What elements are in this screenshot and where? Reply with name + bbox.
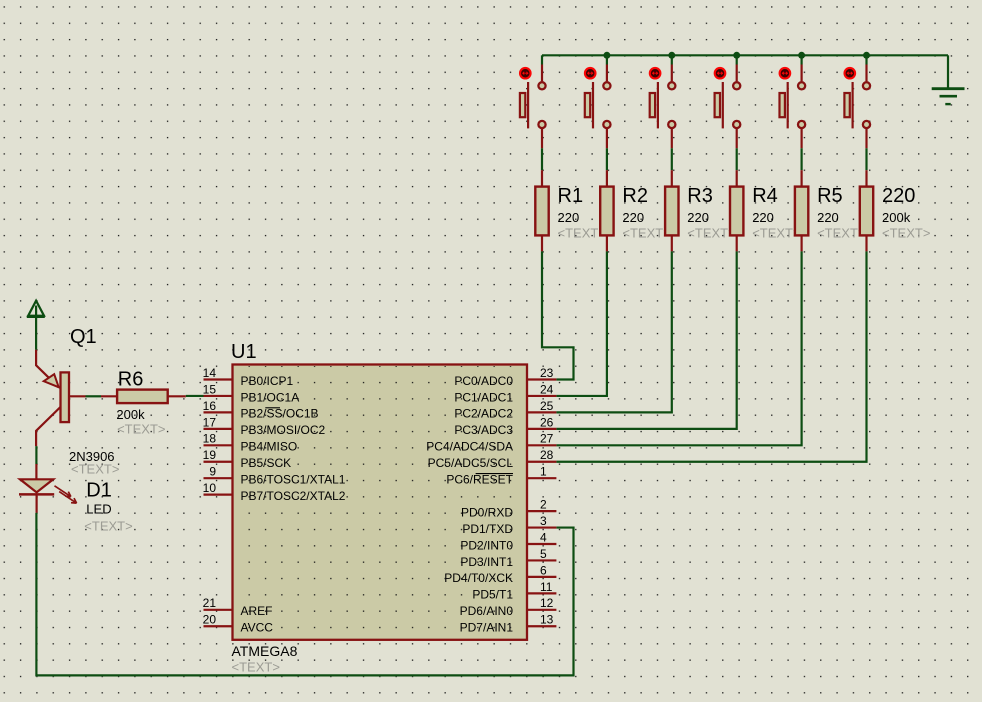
- pin 19 (PB5/SCK) stub: [204, 461, 233, 463]
- wire: R4 to MCU pin: [556, 251, 736, 428]
- overline SS (PB2): [265, 407, 280, 409]
- wire: rail to button 3 top pin: [671, 55, 673, 64]
- pin 14 (PB0/ICP1) stub: [204, 378, 233, 380]
- svg-text:15: 15: [203, 382, 217, 396]
- svg-text:D1: D1: [86, 479, 112, 501]
- transistor Q1 2N3906: [36, 350, 85, 446]
- svg-text:6: 6: [540, 563, 547, 577]
- svg-text:Q1: Q1: [70, 326, 97, 348]
- pin 20 (AVCC) stub: [204, 625, 233, 627]
- svg-text:14: 14: [203, 366, 217, 380]
- wire: rail to button 5 top pin: [800, 55, 802, 64]
- svg-text:<TEXT>: <TEXT>: [117, 422, 165, 437]
- svg-text:<TEXT>: <TEXT>: [752, 226, 800, 241]
- svg-text:R3: R3: [687, 185, 713, 207]
- wire: Q1 base to R6: [86, 395, 102, 397]
- svg-text:<TEXT>: <TEXT>: [817, 226, 865, 241]
- pin 18 (PB4/MISO) stub: [204, 444, 233, 446]
- svg-text:R2: R2: [622, 185, 648, 207]
- wire: button 1 to resistor top: [541, 148, 543, 170]
- resistor R1: [535, 170, 548, 251]
- svg-text:R5: R5: [817, 185, 843, 207]
- power terminal (up arrow): [27, 301, 45, 350]
- svg-text:9: 9: [209, 465, 216, 479]
- pin 17 (PB3/MOSI/OC2) stub: [204, 428, 233, 430]
- wire: R3 to MCU pin: [556, 251, 671, 412]
- svg-text:5: 5: [540, 547, 547, 561]
- wire: ground rail across top: [542, 54, 948, 56]
- svg-text:220: 220: [558, 210, 580, 225]
- wire: rail to button 1 top pin: [541, 55, 543, 64]
- svg-text:11: 11: [540, 580, 553, 594]
- svg-text:24: 24: [540, 382, 554, 396]
- svg-text:220: 220: [622, 210, 644, 225]
- svg-text:LED: LED: [86, 502, 111, 517]
- wire: Q1 collector to LED: [35, 446, 37, 464]
- svg-text:220: 220: [752, 210, 774, 225]
- pin 27 (PC4/ADC4/SDA) stub: [527, 444, 556, 446]
- svg-text:4: 4: [540, 530, 547, 544]
- svg-text:27: 27: [540, 432, 554, 446]
- push button SW3: [650, 65, 676, 149]
- junction on rail at button 2: [603, 52, 610, 59]
- svg-text:25: 25: [540, 399, 554, 413]
- push button SW2: [585, 65, 611, 149]
- pin 5 (PD3/INT1) stub: [527, 559, 556, 561]
- svg-text:16: 16: [203, 399, 217, 413]
- resistor 220: [860, 170, 873, 251]
- pin 3 (PD1/TXD) stub: [527, 526, 556, 528]
- svg-text:18: 18: [203, 432, 217, 446]
- wire: R6 to PB1/OC1A pin15: [186, 395, 204, 397]
- svg-text:23: 23: [540, 366, 554, 380]
- push button SW6: [844, 65, 870, 149]
- pin 21 (AREF) stub: [204, 609, 233, 611]
- svg-text:R1: R1: [558, 185, 584, 207]
- svg-text:13: 13: [540, 613, 554, 627]
- push button SW4: [715, 65, 741, 149]
- pin 28 (PC5/ADC5/SCL) stub: [527, 461, 556, 463]
- svg-text:21: 21: [203, 596, 217, 610]
- pin 11 (PD5/T1) stub: [527, 592, 556, 594]
- svg-text:10: 10: [203, 481, 217, 495]
- wire: R6 to MCU pin: [556, 251, 866, 461]
- junction on rail at button 5: [798, 52, 805, 59]
- svg-text:<TEXT>: <TEXT>: [687, 226, 735, 241]
- svg-text:<TEXT>: <TEXT>: [84, 519, 132, 534]
- svg-text:2: 2: [540, 498, 547, 512]
- wire: PD1/TXD pin3 loop to LED cathode: [36, 513, 573, 676]
- svg-text:26: 26: [540, 415, 554, 429]
- junction on rail at button 6: [863, 52, 870, 59]
- wire: rail to button 2 top pin: [606, 55, 608, 64]
- pin 10 (PB7/TOSC2/XTAL2) stub: [204, 494, 233, 496]
- svg-text:<TEXT>: <TEXT>: [71, 462, 119, 477]
- pin 16 (PB2/SS/OC1B) stub: [204, 411, 233, 413]
- svg-text:17: 17: [203, 415, 217, 429]
- pin 9 (PB6/TOSC1/XTAL1) stub: [204, 477, 233, 479]
- MCU U1 ATMEGA8 body: [233, 365, 528, 640]
- resistor R4: [730, 170, 743, 251]
- LED D1: [19, 464, 77, 513]
- wire: rail to button 4 top pin: [736, 55, 738, 64]
- push button SW1: [520, 65, 546, 149]
- svg-text:19: 19: [203, 448, 217, 462]
- svg-text:12: 12: [540, 596, 554, 610]
- svg-text:200k: 200k: [882, 210, 911, 225]
- pin 12 (PD6/AIN0) stub: [527, 609, 556, 611]
- svg-text:<TEXT>: <TEXT>: [558, 226, 606, 241]
- pin 6 (PD4/T0/XCK) stub: [527, 576, 556, 578]
- wire: R1 to PC0 pin 23: [542, 251, 574, 379]
- pin 23 (PC0/ADC0) stub: [527, 378, 556, 380]
- wire: button 2 to resistor top: [606, 148, 608, 170]
- junction on rail at button 3: [668, 52, 675, 59]
- svg-text:20: 20: [203, 613, 217, 627]
- wire: button 5 to resistor top: [800, 148, 802, 170]
- svg-text:28: 28: [540, 448, 554, 462]
- wire: R5 to MCU pin: [556, 251, 801, 445]
- pin 25 (PC2/ADC2) stub: [527, 411, 556, 413]
- svg-text:R4: R4: [752, 185, 778, 207]
- wire: rail drop to ground symbol: [947, 55, 949, 88]
- resistor R3: [665, 170, 678, 251]
- svg-text:<TEXT>: <TEXT>: [882, 226, 930, 241]
- pin 4 (PD2/INT0) stub: [527, 543, 556, 545]
- pin 13 (PD7/AIN1) stub: [527, 625, 556, 627]
- svg-text:R6: R6: [118, 369, 144, 391]
- push button SW5: [780, 65, 806, 149]
- svg-text:220: 220: [817, 210, 839, 225]
- pin 26 (PC3/ADC3) stub: [527, 428, 556, 430]
- wire: R2 to MCU pin: [556, 251, 607, 396]
- svg-text:U1: U1: [231, 341, 257, 363]
- svg-text:ATMEGA8: ATMEGA8: [232, 643, 298, 659]
- svg-text:<TEXT>: <TEXT>: [622, 226, 670, 241]
- wire: button 3 to resistor top: [671, 148, 673, 170]
- wire: button 4 to resistor top: [736, 148, 738, 170]
- pin 24 (PC1/ADC1) stub: [527, 395, 556, 397]
- resistor R6: [101, 390, 186, 404]
- svg-text:220: 220: [882, 185, 915, 207]
- pin 1 (PC6/RESET) stub: [527, 477, 556, 479]
- svg-text:1: 1: [540, 465, 547, 479]
- svg-text:<TEXT>: <TEXT>: [232, 660, 280, 675]
- wire: rail to button 6 top pin: [865, 55, 867, 64]
- svg-text:200k: 200k: [116, 407, 145, 422]
- pin 15 (PB1/OC1A) stub: [204, 395, 233, 397]
- resistor R5: [795, 170, 808, 251]
- resistor R2: [600, 170, 613, 251]
- junction on rail at button 4: [733, 52, 740, 59]
- pin 2 (PD0/RXD) stub: [527, 510, 556, 512]
- svg-text:220: 220: [687, 210, 709, 225]
- ground: [932, 89, 965, 104]
- overline RESET (PC6): [476, 473, 513, 475]
- wire: button 6 to resistor top: [865, 148, 867, 170]
- svg-text:3: 3: [540, 514, 547, 528]
